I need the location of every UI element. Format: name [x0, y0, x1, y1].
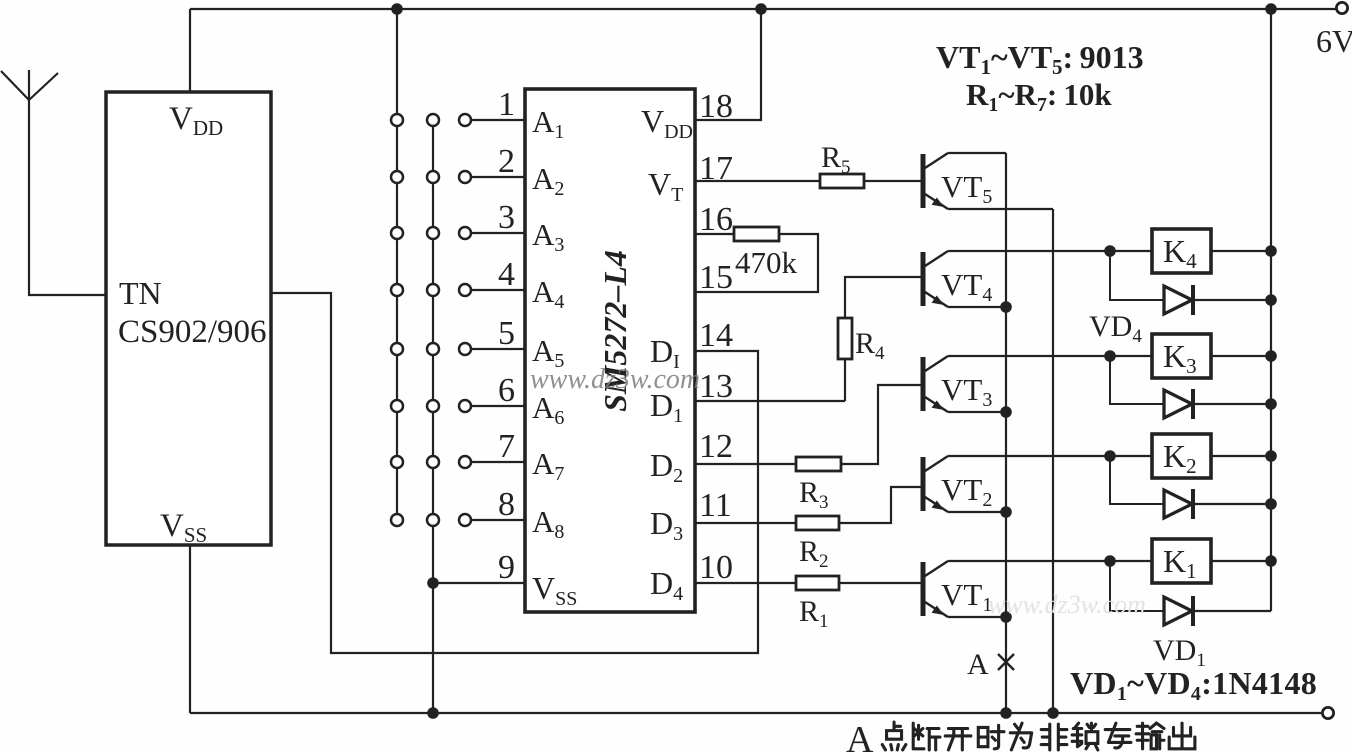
junction column2 / pin9 wire [427, 577, 439, 589]
wire K2 to 6V rail [1211, 455, 1271, 457]
jumper pad column3 row4 [459, 284, 471, 296]
wire VT4 emitter [948, 306, 1006, 308]
jumper pad column1 row2 [391, 171, 403, 183]
relay K4 coil [1152, 229, 1211, 273]
receiver module TN CS902/906 [106, 92, 271, 545]
junction 6V rail / VD3 [1265, 398, 1277, 410]
wire K4 to 6V rail [1211, 250, 1271, 252]
wire 6V rail [1270, 9, 1272, 611]
jumper pad column2 row2 [427, 171, 439, 183]
transistor VT3 [921, 356, 949, 412]
junction 6V rail / K3 [1265, 350, 1277, 362]
svg-text:13: 13 [699, 368, 733, 405]
wire R3 to VT3 base [841, 385, 921, 464]
transistor VT5 [921, 153, 949, 209]
wire VT3 emitter [948, 411, 1006, 413]
wire R4 lower lead [844, 359, 846, 401]
diode VD3 [1110, 356, 1271, 419]
svg-text:470k: 470k [735, 245, 798, 280]
svg-text:16: 16 [699, 201, 733, 238]
junction 6V rail / VD2 [1265, 498, 1277, 510]
svg-text:9: 9 [498, 549, 515, 586]
svg-text:6: 6 [498, 372, 515, 409]
node A mark [998, 654, 1014, 670]
jumper pad column2 row7 [427, 456, 439, 468]
jumper pad column2 row5 [427, 343, 439, 355]
wire VDD riser of receiver [189, 9, 191, 92]
wire pin 12 to R3 [695, 463, 796, 465]
svg-text:6V: 6V [1316, 23, 1352, 59]
junction VT3 collector / diode tap [1104, 350, 1116, 362]
wire top supply rail [190, 8, 1336, 10]
jumper pad column3 row7 [459, 456, 471, 468]
jumper pad column1 row1 [391, 114, 403, 126]
wire jumper row7 to pin 7 [471, 461, 525, 463]
jumper pad column3 row5 [459, 343, 471, 355]
jumper pad column1 row3 [391, 227, 403, 239]
svg-text:12: 12 [699, 428, 733, 465]
junction 6V rail / K4 [1265, 245, 1277, 257]
svg-text:1: 1 [498, 86, 515, 123]
diode VD4 [1110, 251, 1271, 315]
junction 6V rail / K1 [1265, 555, 1277, 567]
wire K1 to 6V rail [1211, 560, 1271, 562]
svg-text:A: A [846, 719, 874, 753]
wire jumper row2 to pin 2 [471, 176, 525, 178]
jumper pad column1 row6 [391, 400, 403, 412]
resistor R1 [796, 576, 839, 590]
junction emitter rail / ground rail [1000, 707, 1012, 719]
transistor VT4 [921, 251, 949, 307]
relay K3 coil [1152, 334, 1211, 378]
wire R2 to VT2 base [839, 487, 921, 523]
junction VT1 collector / diode tap [1104, 555, 1116, 567]
jumper pad column2 row4 [427, 284, 439, 296]
wire VSS drop of receiver [189, 545, 191, 713]
wire VT4 collector to relay [948, 250, 1152, 252]
wire jumper row3 to pin 3 [471, 232, 525, 234]
resistor R2 [796, 516, 839, 530]
diode VD2 [1110, 456, 1271, 519]
junction 6V rail / K2 [1265, 450, 1277, 462]
jumper pad column3 row1 [459, 114, 471, 126]
junction VT2 collector / diode tap [1104, 450, 1116, 462]
svg-text:4: 4 [498, 256, 515, 293]
svg-text:A: A [967, 648, 989, 681]
wire VT5 emitter [948, 208, 1053, 210]
wire VT1 emitter [948, 616, 1006, 618]
wire VT5 emitter drop rail [1052, 209, 1054, 713]
wire VT1 collector to relay [948, 560, 1152, 562]
junction VT1 emitter / common rail [1000, 611, 1012, 623]
wire VT2 collector to relay [948, 455, 1152, 457]
wire common rail through point A [1005, 153, 1007, 713]
wire jumper row5 to pin 5 [471, 348, 525, 350]
wire VT5 collector [948, 152, 1006, 154]
svg-text:2: 2 [498, 143, 515, 180]
transistor VT2 [921, 456, 949, 512]
IC U1 SM5272-L4 body [525, 89, 695, 612]
svg-text:8: 8 [498, 486, 515, 523]
wire jumper row4 to pin 4 [471, 289, 525, 291]
svg-text:VT1~VT5: 9013: VT1~VT5: 9013 [936, 39, 1144, 79]
terminal bottom output [1322, 707, 1333, 718]
resistor R3 [796, 457, 841, 471]
svg-text:3: 3 [498, 199, 515, 236]
wire jumper row8 to pin 8 [471, 519, 525, 521]
wire pin 13 to R4 [695, 400, 845, 402]
junction VT2 emitter / common rail [1000, 506, 1012, 518]
transistor VT1 [921, 561, 949, 617]
jumper pad column1 row8 [391, 514, 403, 526]
junction top rail / 6V rail [1265, 3, 1277, 15]
terminal 6V supply [1336, 2, 1347, 13]
wire 470k to pin 15 [695, 234, 818, 292]
junction VT4 collector / diode tap [1104, 245, 1116, 257]
svg-text:14: 14 [699, 317, 733, 354]
junction VT4 emitter / common rail [1000, 301, 1012, 313]
antenna [1, 70, 58, 100]
resistor R5 [820, 174, 864, 188]
wire bottom ground rail [190, 712, 1321, 714]
wire R1 to VT1 base [839, 582, 921, 584]
resistor 470k [734, 227, 779, 241]
wire VT2 emitter [948, 511, 1006, 513]
wire jumper row6 to pin 6 [471, 405, 525, 407]
resistor R4 [838, 318, 852, 359]
wire pin 9 VSS [433, 582, 525, 584]
wire R5 to VT5 base [864, 180, 921, 182]
svg-text:15: 15 [699, 259, 733, 296]
jumper pad column1 row4 [391, 284, 403, 296]
svg-text:11: 11 [699, 487, 732, 524]
svg-text:5: 5 [498, 315, 515, 352]
jumper pad column2 row6 [427, 400, 439, 412]
wire pin 17 to R5 [695, 180, 820, 182]
jumper pad column1 row7 [391, 456, 403, 468]
jumper pad column3 row3 [459, 227, 471, 239]
jumper pad column1 row5 [391, 343, 403, 355]
jumper pad column3 row2 [459, 171, 471, 183]
wire pin 11 to R2 [695, 522, 796, 524]
wire pin 10 to R1 [695, 582, 796, 584]
relay K1 coil [1152, 539, 1211, 583]
svg-text:10: 10 [699, 549, 733, 586]
wire antenna lead [29, 100, 106, 295]
jumper pad column3 row6 [459, 400, 471, 412]
wire pin 16 to 470k [695, 233, 734, 235]
junction 6V rail / VD4 [1265, 294, 1277, 306]
wire K3 to 6V rail [1211, 355, 1271, 357]
svg-text:7: 7 [498, 428, 515, 465]
jumper pad column2 row8 [427, 514, 439, 526]
junction VT3 emitter / common rail [1000, 406, 1012, 418]
junction top rail / column 1 [391, 3, 403, 15]
jumper pad column2 row1 [427, 114, 439, 126]
diode VD1 [1110, 561, 1271, 626]
relay K2 coil [1152, 434, 1211, 478]
svg-text:www.dz3w.com: www.dz3w.com [988, 590, 1146, 619]
wire pin 18 to top rail [695, 9, 761, 120]
wire address jumper column 1 [396, 9, 398, 520]
svg-text:CS902/906: CS902/906 [118, 314, 267, 350]
svg-text:TN: TN [119, 275, 162, 311]
wire jumper row1 to pin 1 [471, 119, 525, 121]
jumper pad column3 row8 [459, 514, 471, 526]
wire receiver output to pin 14 via bottom run [271, 293, 758, 653]
wire R4 to VT4 base [845, 277, 921, 318]
wire address jumper column 2 [432, 120, 434, 713]
junction top rail / pin18 riser [755, 3, 767, 15]
junction VT5 drop / ground rail [1047, 707, 1059, 719]
junction column2 / ground rail [427, 707, 439, 719]
jumper pad column2 row3 [427, 227, 439, 239]
wire VT3 collector to relay [948, 355, 1152, 357]
